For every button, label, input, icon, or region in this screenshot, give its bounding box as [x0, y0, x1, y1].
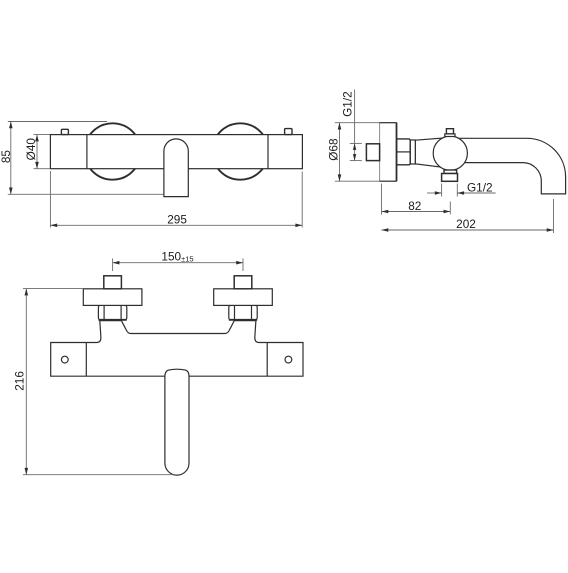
dim O68 ext bottom — [335, 180, 380, 182]
dim G1/2 bottom ext right — [456, 184, 458, 197]
dim 216 ext top — [23, 288, 83, 290]
dim 295 ext right — [301, 172, 303, 228]
right cap line (plan) — [266, 343, 268, 377]
arrow 202 left — [382, 228, 389, 232]
body bar with hub and union tails (plan) — [51, 321, 303, 377]
dim G1/2 top tick lower — [350, 160, 362, 162]
dim 85 line — [10, 122, 12, 195]
lever (plan) — [165, 369, 189, 475]
right union stub — [234, 276, 252, 289]
svg-text:216: 216 — [13, 371, 27, 391]
aerator — [442, 174, 458, 182]
arrow 295 left — [50, 224, 57, 228]
body bar — [50, 135, 302, 169]
arrow 40 top — [35, 135, 39, 142]
dim G1/2 top line — [354, 90, 356, 161]
svg-text:202: 202 — [456, 217, 476, 231]
dim G1/2 bottom ext left — [441, 184, 443, 197]
dim 150 ext left — [112, 258, 114, 271]
dim 295 ext left — [49, 171, 51, 228]
front view dimensions — [8, 122, 302, 228]
dim O68 line — [339, 123, 341, 182]
wall plate top edge — [380, 122, 397, 124]
dim 202 ext right — [553, 199, 555, 233]
top knob stem — [446, 129, 453, 134]
dim G1/2 bottom right leader underline — [457, 192, 495, 194]
dim 82 line — [382, 211, 451, 213]
dim G1/2 top tick upper — [350, 142, 362, 144]
left cap line (plan) — [85, 343, 87, 377]
right union nut face lines — [234, 305, 236, 319]
left union flange — [83, 289, 142, 306]
dim 40 ext bottom — [34, 168, 51, 170]
dim O68 ext top — [335, 122, 380, 124]
dim 202 line — [382, 229, 554, 231]
side view dimensions — [335, 90, 554, 234]
right screw hole — [285, 356, 292, 363]
arrow 82 left — [382, 210, 389, 214]
dim 85 ext line bottom — [8, 193, 164, 195]
right screw button — [285, 129, 292, 135]
right union nut bottom edge — [229, 319, 257, 321]
svg-text:Ø40: Ø40 — [24, 138, 38, 161]
dim 150 ext right — [242, 258, 244, 271]
top knob collar — [445, 134, 455, 137]
arrow 295 right — [295, 224, 302, 228]
wall plate bottom edge — [380, 180, 397, 182]
dim 85 ext line top — [8, 121, 107, 123]
dim 82 ext right — [449, 202, 451, 215]
dim 40 line — [36, 135, 38, 169]
dim 150 line — [113, 262, 243, 264]
wall plate — [380, 123, 397, 182]
dim 40 ext top — [34, 134, 51, 136]
left union nut bottom edge — [98, 319, 126, 321]
arrow 202 right — [547, 228, 554, 232]
wall plate front edge — [396, 123, 398, 182]
body cone — [415, 138, 448, 168]
svg-text:G1/2: G1/2 — [467, 181, 493, 195]
bottom view dimensions — [23, 258, 243, 474]
svg-text:82: 82 — [408, 199, 421, 213]
arrow G1/2 bottom left — [435, 191, 442, 195]
arrow 40 bottom — [35, 162, 39, 169]
arrow G1/2 top down — [353, 154, 356, 161]
arrow G1/2 bottom right — [457, 191, 464, 195]
arrow 216 top — [25, 289, 29, 296]
arrow 82 right — [444, 210, 451, 214]
svg-text:Ø68: Ø68 — [327, 138, 341, 161]
svg-text:85: 85 — [0, 150, 13, 164]
left screw hole — [61, 356, 68, 363]
right end-cap line — [267, 135, 269, 169]
left union stub — [104, 276, 122, 289]
arrow O68 bottom — [338, 174, 342, 181]
dim 216 line — [25, 289, 27, 475]
arrow 216 bottom — [25, 468, 29, 475]
arrow 85 bottom — [9, 188, 13, 195]
svg-text:G1/2: G1/2 — [341, 91, 355, 117]
arrow G1/2 top up — [353, 143, 356, 150]
left union nut — [98, 305, 126, 319]
svg-text:295: 295 — [167, 213, 187, 227]
left union nut face lines — [103, 305, 105, 319]
knob circle right — [212, 123, 268, 179]
hex nut mid line — [397, 151, 411, 153]
valve circle — [433, 136, 467, 170]
left screw button — [61, 129, 68, 134]
collar strip — [410, 140, 415, 164]
hex nut — [397, 139, 411, 165]
arrow 150 right — [236, 261, 243, 265]
inlet nipple — [366, 144, 379, 161]
arrow 150 left — [113, 261, 120, 265]
right union flange — [214, 289, 273, 306]
arrow 85 top — [9, 122, 13, 129]
dim 216 ext bottom — [23, 474, 173, 476]
dim G1/2 bottom left leader — [427, 192, 442, 194]
dim 82 ext left — [381, 184, 383, 215]
dim 295 line — [50, 224, 302, 226]
left end-cap line — [86, 135, 88, 169]
right union nut — [229, 305, 257, 319]
knob circle left — [84, 123, 140, 179]
spout — [455, 138, 566, 194]
lever handle — [164, 139, 188, 197]
outlet collar — [444, 170, 457, 174]
arrow O68 top — [338, 123, 342, 130]
